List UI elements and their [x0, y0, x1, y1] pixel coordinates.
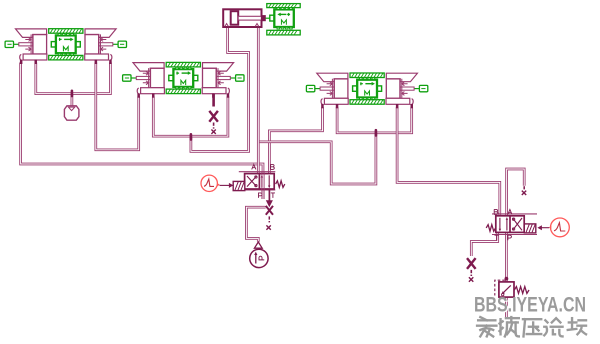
svg-text:BBS.IYEYA.CN: BBS.IYEYA.CN — [474, 293, 586, 317]
